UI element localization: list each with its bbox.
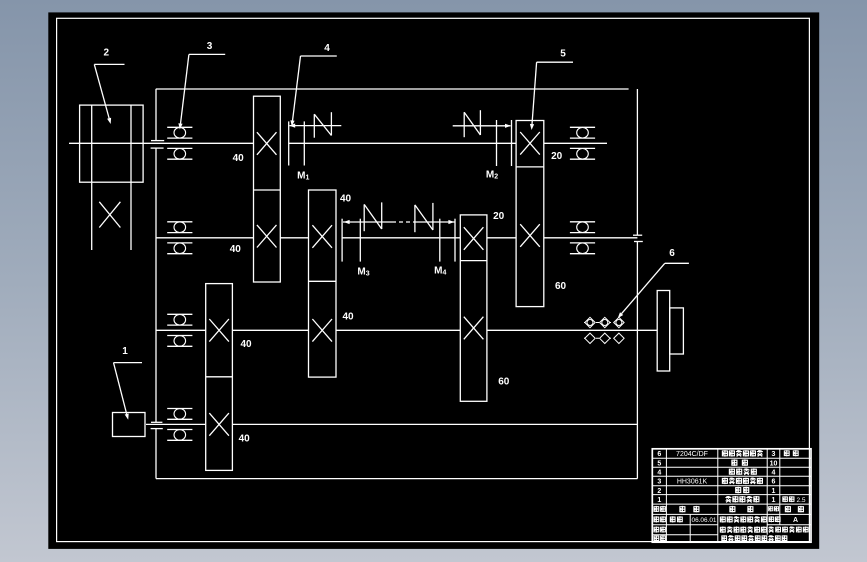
svg-text:6: 6 — [657, 451, 661, 458]
svg-text:5: 5 — [560, 49, 566, 60]
gear block E outline — [516, 121, 544, 307]
gear block F upper X (gear z20 shaft II) — [464, 227, 484, 250]
shaft III — [156, 329, 657, 331]
clutch M2 operating line with arrow — [453, 124, 511, 128]
svg-text:40: 40 — [340, 194, 352, 205]
svg-text:40: 40 — [342, 312, 354, 323]
clutch M1 operating line with arrow — [289, 124, 341, 128]
output flange inner plate — [670, 308, 684, 354]
gear block C outline — [206, 284, 233, 471]
shaft IV — [146, 423, 637, 425]
clutch M4 arrow — [448, 220, 454, 224]
gear block F lower X (gear z60 shaft III) — [464, 317, 484, 340]
bearing shaft III left upper — [167, 314, 192, 325]
svg-text:40: 40 — [240, 339, 252, 350]
svg-text:40: 40 — [233, 153, 245, 164]
gear block E lower X (gear z60 shaft II) — [520, 224, 540, 247]
svg-text:3: 3 — [772, 451, 776, 458]
svg-text:HH3061K: HH3061K — [677, 478, 708, 485]
gear block B outline — [309, 190, 337, 377]
gear block E divider — [516, 166, 544, 168]
callout 4 leader — [290, 56, 336, 127]
chain coupling lower diamonds — [585, 333, 624, 343]
bearing shaft II right upper — [570, 222, 595, 233]
callout 2 leader — [94, 64, 124, 124]
gearbox housing top line — [156, 88, 629, 90]
gearbox housing left wall (break at shaft I and shaft IV) — [155, 89, 157, 479]
svg-text:40: 40 — [239, 434, 251, 445]
svg-text:20: 20 — [493, 211, 505, 222]
bearing shaft II right lower — [570, 243, 595, 254]
output flange outer plate — [657, 291, 670, 372]
clutch M4 shift fork verticals — [440, 219, 455, 262]
svg-text:1: 1 — [772, 488, 776, 495]
clutch M3 sliding sleeve N symbol — [364, 202, 382, 231]
wall pass-through ticks shaft IV — [151, 422, 163, 428]
callout 1 leader — [114, 363, 143, 420]
svg-text:2.5: 2.5 — [796, 497, 805, 504]
wall pass-through ticks shaft II right end — [633, 235, 643, 241]
svg-text:2: 2 — [657, 488, 661, 495]
clutch M1 sliding sleeve N symbol — [314, 112, 331, 138]
gear block C divider — [206, 376, 233, 378]
clutch M3 shift fork verticals — [342, 219, 360, 262]
gear block C upper X (gear z40 shaft III) — [209, 319, 229, 342]
gear block B divider — [309, 280, 337, 282]
svg-text:4: 4 — [772, 469, 776, 476]
svg-text:1: 1 — [772, 497, 776, 504]
svg-text:6: 6 — [669, 248, 675, 259]
chain coupling upper diamonds with circles — [585, 317, 624, 327]
svg-text:10: 10 — [770, 460, 778, 467]
clutch M4 sliding sleeve N symbol — [415, 203, 433, 232]
bearing shaft II left upper — [167, 222, 192, 233]
gear block E upper X (gear z20 shaft I) — [520, 132, 540, 155]
gear block F divider — [460, 260, 487, 262]
svg-text:6: 6 — [772, 479, 776, 486]
gear block A outline — [254, 96, 281, 282]
svg-text:4: 4 — [324, 43, 330, 54]
gear block B upper X (gear z40 shaft II) — [312, 225, 332, 248]
belt lines of pulley drive — [92, 105, 131, 250]
svg-text:06.06.01: 06.06.01 — [692, 517, 717, 524]
clutch M2 sliding sleeve N symbol — [464, 110, 480, 137]
svg-text:60: 60 — [555, 281, 567, 292]
svg-text:5: 5 — [657, 460, 661, 467]
shaft I — [69, 142, 607, 144]
svg-text:4: 4 — [657, 469, 661, 476]
svg-text:A: A — [793, 517, 798, 524]
chain coupling dashed centerlines — [584, 323, 626, 339]
bearing shaft I right lower — [570, 148, 595, 159]
gear block F outline — [460, 215, 487, 401]
bearing shaft IV left upper — [167, 409, 192, 420]
gear block A divider — [254, 189, 281, 191]
svg-text:60: 60 — [498, 377, 510, 388]
callout 6 leader — [618, 263, 689, 318]
gear block B lower X (gear z40 shaft III) — [312, 319, 332, 342]
clutch M2 shift fork verticals — [497, 120, 512, 166]
wall pass-through ticks shaft I — [151, 141, 165, 149]
title block grid — [652, 449, 811, 542]
bearing shaft I left upper — [167, 127, 192, 138]
callout 3 leader — [178, 54, 225, 129]
svg-text:40: 40 — [230, 244, 242, 255]
svg-text:1: 1 — [122, 346, 128, 357]
title block texts — [654, 450, 809, 541]
bearing shaft I right upper — [570, 127, 595, 138]
gearbox housing bottom line — [156, 478, 637, 480]
clutch M3 operating line with arrow — [343, 220, 455, 224]
svg-text:20: 20 — [551, 151, 563, 162]
svg-text:3: 3 — [207, 41, 213, 52]
svg-text:1: 1 — [657, 497, 661, 504]
bearing shaft IV left lower — [167, 430, 192, 441]
svg-text:3: 3 — [657, 479, 661, 486]
shaft II — [156, 237, 637, 239]
gear block A upper X (gear z40 shaft I) — [257, 132, 277, 155]
motor 1 box — [113, 413, 146, 437]
bearing shaft I left lower — [167, 148, 192, 159]
gear block C lower X (gear z40 shaft IV) — [209, 413, 229, 436]
bearing shaft III left lower — [167, 336, 192, 347]
clutch M1 shift fork verticals — [289, 121, 305, 165]
gearbox housing right wall (break at shaft II) — [636, 89, 638, 479]
motor 2 pulley box — [80, 105, 144, 182]
svg-text:7204C/DF: 7204C/DF — [676, 451, 708, 458]
gear block A lower X (gear z40 shaft II) — [257, 225, 277, 248]
callout 5 leader — [530, 62, 573, 130]
belt cross X — [99, 202, 120, 228]
svg-text:2: 2 — [104, 48, 110, 59]
bearing shaft II left lower — [167, 243, 192, 254]
